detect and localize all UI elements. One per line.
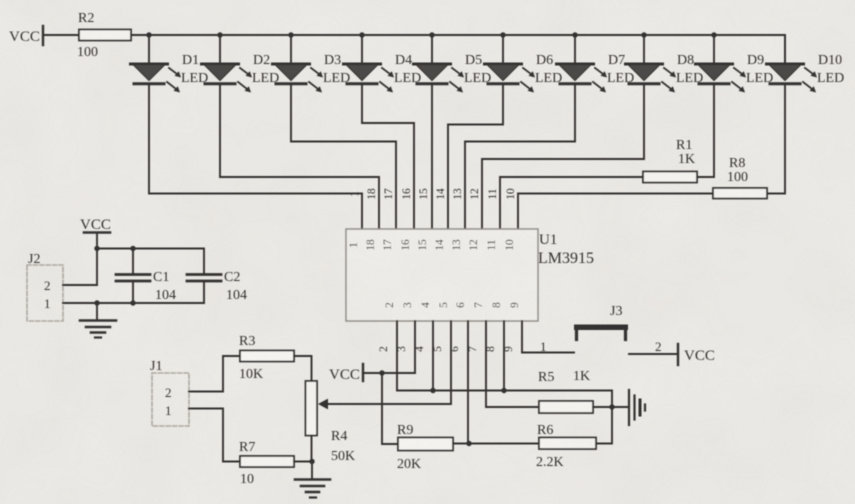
junction top rail / D8 xyxy=(641,32,646,37)
wire D6 cathode to U1 pin 14 xyxy=(448,84,503,229)
wire D9 cathode to R1 xyxy=(697,84,714,177)
LED D4 xyxy=(344,35,422,93)
LED D3 xyxy=(273,35,351,93)
capacitor C2 xyxy=(187,270,247,303)
junction R5 / ground node xyxy=(609,404,614,409)
wire R3 to R4 top xyxy=(294,356,312,381)
U1 pin 1 number labels xyxy=(348,191,361,248)
wire R5 to divider node xyxy=(593,406,612,408)
wire U1 pin 4 stub xyxy=(432,321,434,391)
IC U1 LM3915 xyxy=(346,229,594,321)
U1 pin 5 number labels xyxy=(432,302,450,352)
junction VCC node xyxy=(379,370,384,375)
junction pin 8 node xyxy=(501,388,506,393)
wire J1 pin 1 to R7 xyxy=(189,409,240,462)
wire J3 pin 2 to VCC xyxy=(629,353,677,355)
wire D10 cathode to R8 xyxy=(767,84,785,194)
wire D7 cathode to U1 pin 13 xyxy=(465,84,575,229)
resistor R2 xyxy=(77,11,131,60)
resistor R7 xyxy=(239,440,294,487)
wire J2 pin 1 ground rail xyxy=(63,302,204,304)
resistor R8 xyxy=(713,156,767,199)
U1 pin 16 number labels xyxy=(400,188,413,251)
U1 pin 9 number labels xyxy=(503,302,521,352)
connector J2 xyxy=(27,252,63,321)
wire U1 pin 5 to R4 wiper xyxy=(327,321,451,404)
junction top rail / D5 xyxy=(429,32,434,37)
U1 pin 6 number labels xyxy=(449,302,467,352)
wire D2 cathode to U1 pin 18 xyxy=(220,84,379,229)
wire D3 cathode to U1 pin 17 xyxy=(291,84,396,229)
junction top rail / D4 xyxy=(359,32,364,37)
U1 pin 14 number labels xyxy=(434,188,447,251)
U1 pin 15 number labels xyxy=(417,188,430,251)
wire VCC node to R9 xyxy=(382,373,398,444)
power terminal VCC (center) xyxy=(329,364,363,383)
junction R9/R6/U1 pin 6 xyxy=(466,441,471,446)
resistor R1 xyxy=(643,138,697,183)
U1 pin 18 number labels xyxy=(365,188,378,251)
wire R7 to ground junction xyxy=(294,461,312,463)
U1 pin 12 number labels xyxy=(468,188,481,251)
junction R4/R7 ground node xyxy=(309,459,314,464)
wire R4 bottom to ground junction xyxy=(311,436,313,462)
junction top rail / D1 xyxy=(146,32,151,37)
wire R8 to U1 pin 10 xyxy=(518,194,713,230)
power terminal VCC (top left) xyxy=(9,26,43,45)
wire R1 to U1 pin 11 xyxy=(500,177,643,229)
ground (right side, sideways) xyxy=(629,390,645,425)
wire VCC to U1 pin 3 xyxy=(364,321,415,373)
wire U1 pin 9 to J3 pin 1 xyxy=(522,321,574,353)
power terminal VCC (left center) xyxy=(80,217,111,285)
junction top rail / D9 xyxy=(711,32,716,37)
U1 pin 17 number labels xyxy=(382,188,395,251)
ground (bottom center) xyxy=(295,462,330,498)
U1 pin 10 number labels xyxy=(504,188,517,251)
wire D4 cathode to U1 pin 16 xyxy=(362,84,414,229)
LED D1 xyxy=(131,35,209,93)
potentiometer R4 xyxy=(306,381,356,464)
junction top rail / D7 xyxy=(572,32,577,37)
wire U1 pin 2 / pin 4 / pin 8 net to divider node xyxy=(397,321,612,444)
LED D5 xyxy=(414,35,492,93)
wire D5 cathode to U1 pin 15 xyxy=(431,84,433,229)
U1 pin 2 number labels xyxy=(378,302,396,352)
wire supply rail to capacitors xyxy=(97,249,204,274)
resistor R6 xyxy=(536,423,596,470)
wire VCC to R2 xyxy=(43,34,79,36)
U1 pin 8 number labels xyxy=(485,302,503,352)
power terminal VCC (right) xyxy=(678,344,715,365)
U1 pin 13 number labels xyxy=(451,188,464,251)
junction top rail / D2 xyxy=(217,32,222,37)
U1 pin 11 number labels xyxy=(486,189,499,251)
U1 pin 4 number labels xyxy=(414,302,432,352)
connector J1 xyxy=(150,359,189,426)
capacitor C1 xyxy=(116,249,176,304)
wire J2 pin 2 to VCC stem xyxy=(63,284,97,286)
junction top rail / D3 xyxy=(288,32,293,37)
resistor R9 xyxy=(397,423,453,472)
wire U1 pin 7 to R5 xyxy=(486,321,539,407)
wire divider node to ground xyxy=(612,406,628,408)
junction top rail / D6 xyxy=(500,32,505,37)
LED D6 xyxy=(485,35,563,93)
U1 pin 3 number labels xyxy=(396,302,414,352)
ground (J2 area) xyxy=(80,303,116,338)
wire J1 pin 2 to R3 xyxy=(189,356,240,392)
wire D1 cathode to U1 pin 1 xyxy=(149,84,362,229)
junction VCC / C1 C2 supply rail xyxy=(94,246,99,251)
LED D9 xyxy=(696,35,774,93)
resistor R3 xyxy=(239,334,294,382)
LED D2 xyxy=(202,35,280,93)
wire D8 cathode to U1 pin 12 xyxy=(482,84,644,229)
junction C1 bottom xyxy=(130,300,135,305)
wire U1 pin 8 stub xyxy=(503,321,505,391)
resistor R5 xyxy=(538,369,593,413)
wire top LED supply rail xyxy=(131,35,785,64)
junction pin 4 node xyxy=(430,388,435,393)
wire U1 pin 6 to R9/R6 node xyxy=(467,321,469,444)
junction ground rail / ground stem xyxy=(94,300,99,305)
LED D8 xyxy=(626,35,704,93)
LED D7 xyxy=(557,35,635,93)
junction C1 top xyxy=(130,246,135,251)
LED D10 xyxy=(767,35,845,93)
connector J3 (jumper) xyxy=(574,304,628,340)
U1 pin 7 number labels xyxy=(467,302,485,352)
wire R9 to R6 xyxy=(453,443,539,445)
